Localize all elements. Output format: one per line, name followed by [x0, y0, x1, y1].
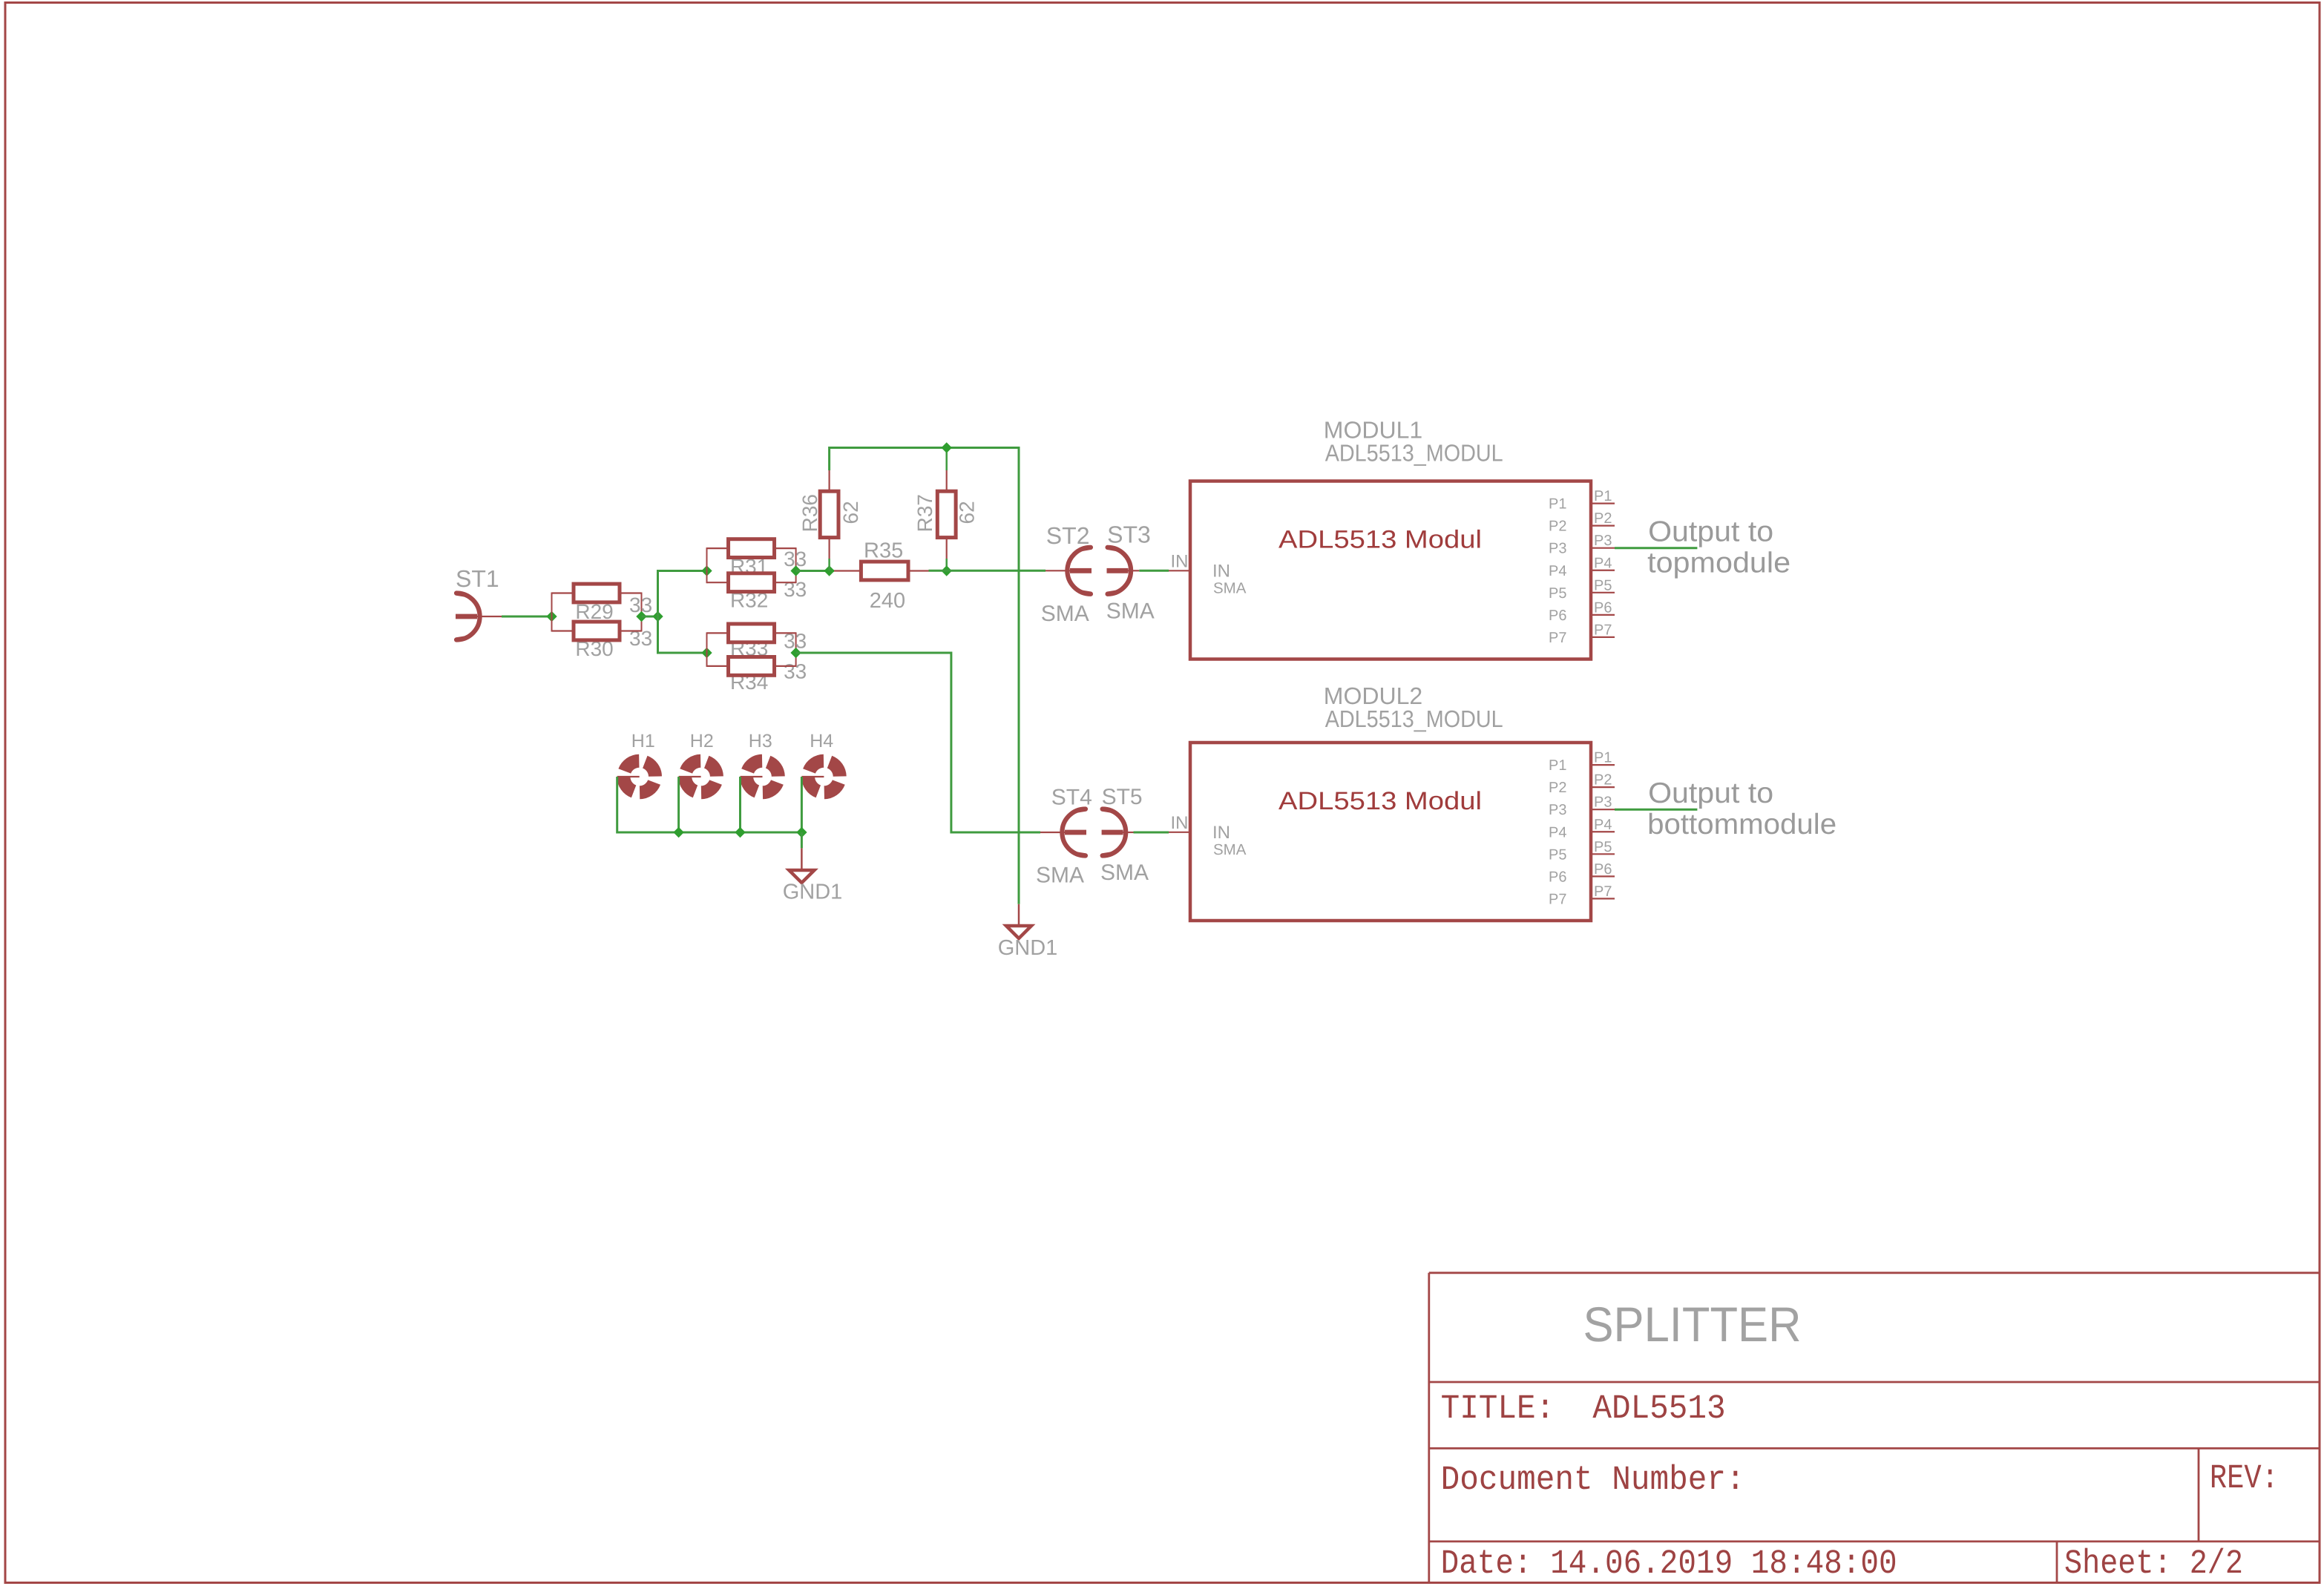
svg-text:ST2: ST2	[1046, 522, 1090, 549]
svg-text:R35: R35	[864, 539, 903, 563]
wire R37 bottom stub	[945, 559, 948, 571]
resistor R33	[707, 632, 729, 634]
resistor R36	[828, 470, 830, 491]
resistor R31 body fill	[729, 539, 775, 558]
pin P3 of MODUL1	[1591, 547, 1615, 549]
pin P7 of MODUL2	[1591, 898, 1615, 899]
svg-text:SMA: SMA	[1041, 602, 1089, 626]
wire	[641, 593, 643, 632]
wire ST5 to MODUL2 IN	[1134, 832, 1169, 834]
svg-text:R37: R37	[913, 494, 936, 532]
wire J9 to ST4	[796, 653, 1040, 832]
svg-text:P1: P1	[1549, 757, 1566, 774]
junction J8 (R37 top)	[942, 442, 952, 453]
resistor R32 body fill	[729, 573, 775, 592]
resistor R29 body fill	[574, 584, 620, 602]
svg-text:ADL5513 Modul: ADL5513 Modul	[1278, 525, 1482, 553]
wire ST1 to node J1	[502, 616, 552, 618]
resistor R30	[552, 630, 574, 631]
svg-text:IN: IN	[1171, 813, 1189, 833]
svg-text:P2: P2	[1549, 519, 1566, 535]
svg-text:P7: P7	[1594, 884, 1612, 900]
pin P1 of MODUL2	[1591, 764, 1615, 766]
svg-text:IN: IN	[1171, 552, 1189, 572]
junction J9	[790, 648, 801, 658]
wire	[551, 593, 553, 632]
svg-text:P5: P5	[1549, 585, 1566, 602]
svg-text:H3: H3	[749, 731, 772, 751]
svg-text:P6: P6	[1549, 869, 1566, 885]
svg-text:IN: IN	[1212, 823, 1230, 843]
resistor R29	[552, 592, 574, 593]
svg-text:SMA: SMA	[1100, 861, 1149, 885]
connector ST5 (SMA)	[1102, 830, 1123, 835]
pin P2 of MODUL2	[1591, 786, 1615, 788]
pin IN of MODUL2	[1169, 832, 1190, 833]
wire J2 to J3	[642, 616, 658, 618]
svg-text:ST4: ST4	[1051, 786, 1092, 810]
connector ST2 (SMA)	[1046, 570, 1070, 571]
resistor R34	[707, 665, 729, 667]
mounting hole H3	[768, 762, 778, 777]
ground GND1 (left)	[801, 848, 803, 870]
pin P3 of MODUL2	[1591, 809, 1615, 810]
mounting hole H4	[830, 762, 840, 777]
pin P4 of MODUL2	[1591, 831, 1615, 832]
svg-text:TITLE: ADL5513: TITLE: ADL5513	[1441, 1389, 1726, 1428]
pin P6 of MODUL2	[1591, 875, 1615, 877]
svg-text:Date: 14.06.2019 18:48:00: Date: 14.06.2019 18:48:00	[1441, 1544, 1897, 1583]
svg-text:P4: P4	[1594, 555, 1612, 571]
svg-text:SMA: SMA	[1106, 599, 1155, 623]
svg-text:topmodule: topmodule	[1647, 547, 1790, 579]
svg-text:SMA: SMA	[1036, 863, 1084, 888]
svg-text:bottommodule: bottommodule	[1647, 809, 1836, 840]
svg-text:33: 33	[784, 660, 807, 683]
resistor R31	[707, 547, 729, 549]
junction J3	[652, 611, 663, 622]
connector ST3 (SMA)	[1107, 568, 1129, 573]
wire R35 to ST2	[929, 570, 1046, 572]
wire	[795, 547, 797, 583]
svg-text:P3: P3	[1594, 533, 1612, 549]
svg-text:P2: P2	[1594, 772, 1612, 789]
resistor R34 body fill	[729, 657, 775, 676]
svg-text:R36: R36	[798, 494, 821, 532]
svg-text:62: 62	[839, 501, 862, 524]
pin P5 of MODUL2	[1591, 853, 1615, 855]
resistor R32	[707, 582, 729, 583]
svg-text:ST3: ST3	[1107, 522, 1151, 548]
svg-text:P5: P5	[1594, 839, 1612, 855]
resistor R37	[946, 470, 948, 491]
svg-text:P1: P1	[1549, 496, 1566, 513]
svg-text:33: 33	[784, 578, 807, 601]
wire	[706, 632, 708, 667]
svg-text:REV:: REV:	[2210, 1459, 2279, 1498]
svg-text:ADL5513 Modul: ADL5513 Modul	[1278, 787, 1482, 815]
junction J7 (R36 bottom)	[824, 565, 834, 576]
wire J6 to R35	[796, 570, 834, 572]
svg-text:ADL5513_MODUL: ADL5513_MODUL	[1325, 440, 1503, 467]
svg-text:P7: P7	[1594, 622, 1612, 638]
svg-text:P2: P2	[1594, 510, 1612, 527]
svg-text:P1: P1	[1594, 488, 1612, 504]
svg-text:SPLITTER: SPLITTER	[1583, 1297, 1802, 1352]
svg-text:ST1: ST1	[456, 565, 499, 592]
svg-text:P4: P4	[1549, 824, 1566, 840]
pin P5 of MODUL1	[1591, 592, 1615, 593]
svg-text:62: 62	[955, 501, 978, 524]
junction J10 (R37 bottom)	[942, 565, 952, 576]
wire H bus to GND1	[801, 832, 803, 848]
svg-text:P3: P3	[1549, 541, 1566, 557]
wire J3 to upper branch	[658, 571, 707, 617]
svg-text:H2: H2	[690, 731, 714, 751]
svg-text:P2: P2	[1549, 780, 1566, 796]
svg-text:P4: P4	[1549, 563, 1566, 579]
junction J4	[701, 565, 712, 576]
svg-text:H1: H1	[631, 731, 655, 751]
wire top rail to GND	[830, 448, 1019, 904]
junction J5	[701, 648, 712, 658]
svg-text:H4: H4	[810, 731, 833, 751]
svg-text:SMA: SMA	[1213, 579, 1247, 596]
resistor R33 body fill	[729, 624, 775, 642]
junction H3 bus	[735, 827, 745, 838]
wire H2 down	[677, 777, 680, 832]
svg-text:P3: P3	[1549, 802, 1566, 818]
pin P7 of MODUL1	[1591, 636, 1615, 638]
wire R37 top stub	[945, 448, 948, 471]
pin P4 of MODUL1	[1591, 570, 1615, 571]
pin P1 of MODUL1	[1591, 502, 1615, 504]
mounting hole H1	[645, 762, 655, 777]
svg-text:ST5: ST5	[1102, 785, 1143, 809]
svg-text:GND1: GND1	[783, 880, 843, 904]
wire H4 down	[801, 777, 803, 832]
svg-text:GND1: GND1	[998, 936, 1058, 960]
junction J6	[790, 565, 801, 576]
svg-text:P7: P7	[1549, 891, 1566, 907]
ground GND1 (center)	[1018, 904, 1020, 926]
svg-text:IN: IN	[1212, 562, 1230, 582]
svg-text:Document Number:: Document Number:	[1441, 1461, 1745, 1499]
svg-text:P6: P6	[1594, 599, 1612, 616]
resistor R35	[834, 570, 861, 571]
module MODUL1 ADL5513_MODUL box	[1190, 481, 1591, 659]
svg-text:SMA: SMA	[1213, 841, 1247, 858]
wire H1 down	[617, 777, 802, 832]
pin P6 of MODUL1	[1591, 614, 1615, 616]
pin IN of MODUL1	[1169, 570, 1190, 571]
wire ST3 to MODUL1 IN	[1139, 570, 1169, 572]
junction J1	[546, 611, 557, 622]
pin P2 of MODUL1	[1591, 525, 1615, 527]
svg-text:P3: P3	[1594, 794, 1612, 811]
svg-text:240: 240	[870, 589, 905, 613]
junction H2 bus	[673, 827, 683, 838]
resistor R30 body fill	[574, 622, 620, 640]
wire	[795, 632, 797, 667]
wire J3 to lower branch	[658, 616, 707, 653]
connector ST1 (SMA)	[456, 614, 477, 619]
svg-text:P4: P4	[1594, 817, 1612, 833]
junction H4 bus	[796, 827, 807, 838]
wire R36 bottom stub	[828, 559, 830, 571]
svg-text:P5: P5	[1549, 846, 1566, 863]
wire MODUL1 P3 output	[1615, 547, 1697, 549]
svg-text:P7: P7	[1549, 630, 1566, 646]
svg-text:ADL5513_MODUL: ADL5513_MODUL	[1325, 705, 1503, 732]
connector ST4 (SMA)	[1040, 832, 1065, 833]
wire MODUL2 P3 output	[1615, 809, 1697, 811]
wire H3 down	[739, 777, 741, 832]
wire	[706, 547, 708, 583]
svg-text:P1: P1	[1594, 750, 1612, 766]
title block frame	[1429, 1271, 2320, 1274]
svg-text:Output to: Output to	[1648, 777, 1773, 809]
svg-text:Sheet: 2/2: Sheet: 2/2	[2064, 1544, 2243, 1583]
svg-text:P6: P6	[1549, 608, 1566, 624]
mounting hole H2	[706, 762, 717, 777]
svg-text:P5: P5	[1594, 577, 1612, 593]
svg-text:Output to: Output to	[1648, 516, 1773, 547]
svg-text:P6: P6	[1594, 861, 1612, 878]
junction J2	[636, 611, 646, 622]
module MODUL2 ADL5513_MODUL box	[1190, 743, 1591, 921]
